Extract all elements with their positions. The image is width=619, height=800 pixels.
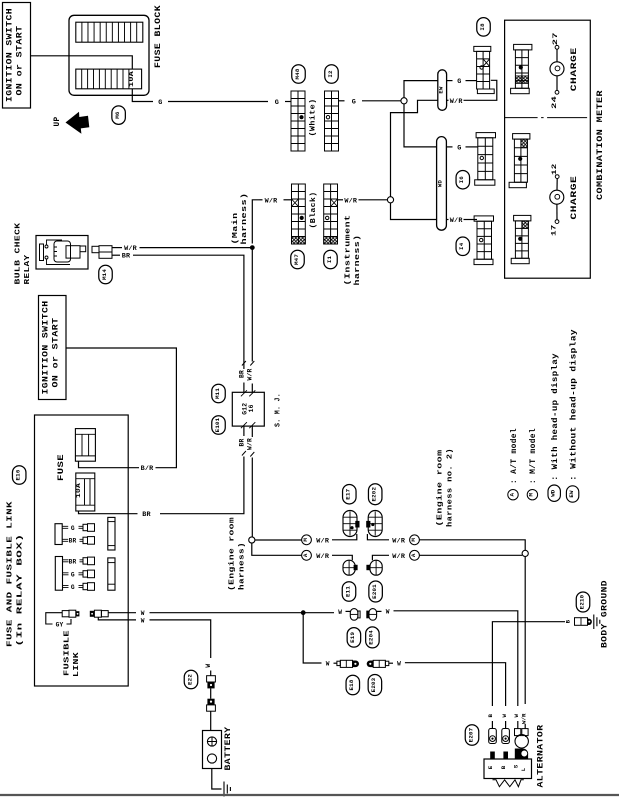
wire BR SMJ to fuse box <box>160 457 244 514</box>
ignition switch 1 box <box>3 3 31 109</box>
svg-text:(Black): (Black) <box>310 192 318 229</box>
wire W row junction dot <box>301 610 306 615</box>
svg-text:M6: M6 <box>114 111 121 119</box>
wire W/R M branch <box>255 539 302 541</box>
charge lamp 2 bulb <box>556 179 558 191</box>
svg-text:BR: BR <box>239 439 246 447</box>
connector M6 <box>112 106 126 125</box>
wire W from E204 <box>377 610 382 612</box>
svg-text:W: W <box>397 660 401 667</box>
wire W/R A to merge node <box>419 554 522 556</box>
alternator B terminal <box>491 721 493 729</box>
wire B/R ignition switch 2 <box>66 348 176 468</box>
relay internal contacts <box>45 245 48 248</box>
wire W/R WD bar to I4 <box>446 219 448 221</box>
svg-text:S: S <box>512 764 519 768</box>
svg-text:BR: BR <box>69 558 77 565</box>
wire W/R node up to EW bar <box>391 100 438 196</box>
svg-text:FUSE BLOCK: FUSE BLOCK <box>154 5 163 68</box>
fuse block lower fuse strip <box>76 69 142 89</box>
svg-text:E18: E18 <box>348 679 355 690</box>
svg-text:W: W <box>501 714 508 718</box>
svg-text:B: B <box>500 765 507 769</box>
wire W from E203 <box>389 662 393 664</box>
svg-text:WD: WD <box>437 180 444 188</box>
svg-text:10A: 10A <box>128 71 135 87</box>
connector M14 pins <box>92 246 99 252</box>
battery side connector <box>207 699 214 705</box>
svg-text:G: G <box>71 571 75 578</box>
connector M11 <box>212 384 226 403</box>
wire W upper from fusible link <box>108 612 136 614</box>
merge node open circle <box>522 550 528 556</box>
legend A/T symbol <box>508 490 518 500</box>
battery ground wire <box>212 769 222 790</box>
svg-text:LINK: LINK <box>73 652 81 677</box>
svg-text:M: M <box>528 493 535 497</box>
svg-text:M47: M47 <box>293 254 300 265</box>
legend EW symbol <box>566 486 578 502</box>
wire W/R M47 to left <box>284 199 292 201</box>
svg-text:27: 27 <box>552 32 559 45</box>
svg-text:ON or START: ON or START <box>52 318 61 388</box>
svg-text:E22: E22 <box>186 674 193 685</box>
svg-text:W: W <box>338 609 342 616</box>
svg-text:M48: M48 <box>294 68 301 79</box>
svg-text:E202: E202 <box>371 487 378 502</box>
battery <box>203 731 222 769</box>
svg-text:W: W <box>386 609 390 616</box>
legend WD symbol <box>548 485 560 501</box>
fusible link connector left <box>62 611 69 617</box>
svg-text:E210: E210 <box>578 594 585 609</box>
svg-text:M: M <box>302 538 309 542</box>
svg-text:CHARGE: CHARGE <box>570 176 579 220</box>
connector E16 <box>12 466 26 485</box>
svg-text:W: W <box>141 610 145 617</box>
svg-text:E203: E203 <box>370 677 377 692</box>
wire W/R M47 down to relay junction <box>252 200 259 244</box>
wire W to alternator <box>394 611 518 706</box>
connector E17 <box>343 511 357 537</box>
wire W/R from E201 <box>372 555 389 560</box>
fuse lower 10A in relay box <box>76 473 95 511</box>
svg-text:: A/T model: : A/T model <box>511 428 519 484</box>
svg-text:harness): harness) <box>354 235 362 286</box>
svg-text:G: G <box>71 525 75 532</box>
wire break ticks below SMJ labels <box>242 451 254 457</box>
battery ground symbol <box>224 782 230 797</box>
svg-text:W: W <box>141 618 145 625</box>
connector M47 grid <box>292 184 306 244</box>
svg-text:G: G <box>275 99 280 107</box>
svg-text:I2: I2 <box>327 70 334 78</box>
wire W lower from fusible link <box>98 617 136 620</box>
svg-text:CHARGE: CHARGE <box>570 47 579 91</box>
relay output connector <box>66 246 80 258</box>
wire W/R from E202 <box>367 534 389 540</box>
svg-text:BULB CHECK: BULB CHECK <box>15 222 23 284</box>
svg-text:W/R: W/R <box>247 438 254 450</box>
connector I2 grid <box>325 91 339 151</box>
comb 1 BR link pill <box>80 539 84 541</box>
fuse and fusible link box <box>35 415 129 686</box>
svg-text:W/R: W/R <box>316 537 330 545</box>
alternator sawtooth <box>493 780 524 787</box>
ignition switch 2 box <box>39 296 67 400</box>
relay internal wiring <box>47 240 63 245</box>
wire W/R node down to WD bar <box>391 203 437 220</box>
svg-text:FUSE AND FUSIBLE LINK: FUSE AND FUSIBLE LINK <box>7 501 15 647</box>
svg-text:FUSE: FUSE <box>58 454 66 481</box>
svg-text:W/R: W/R <box>450 217 464 225</box>
legend M/T symbol <box>527 490 537 500</box>
svg-text:ALTERNATOR: ALTERNATOR <box>537 725 546 788</box>
svg-text:BR: BR <box>122 253 131 261</box>
svg-text:12: 12 <box>551 164 558 176</box>
wire G fuse block to M48 <box>132 89 153 102</box>
svg-text:BODY GROUND: BODY GROUND <box>601 580 610 648</box>
wire B/R from fuse <box>79 461 81 468</box>
svg-text:17: 17 <box>551 225 558 237</box>
charge lamp 1 bulb <box>556 49 558 62</box>
meter connector middle <box>513 134 530 140</box>
connector E201 <box>370 560 382 575</box>
svg-text:COMBINATION METER: COMBINATION METER <box>596 90 605 200</box>
wire W drop to E18 row <box>303 613 321 663</box>
cartridge fusible link B <box>108 558 115 590</box>
WD flow bar <box>437 137 447 231</box>
svg-text:G: G <box>457 144 462 152</box>
charge lamp 1 terminal 24 <box>555 90 559 94</box>
svg-text:harness): harness) <box>239 542 247 590</box>
connector E19 <box>350 609 358 621</box>
connector I8 <box>474 46 491 51</box>
connector E202 <box>368 511 382 537</box>
charge lamp 2 terminal 12 <box>555 175 559 179</box>
svg-text:W/R: W/R <box>344 197 358 205</box>
svg-text:E204: E204 <box>368 630 375 645</box>
wire W/R M to merge <box>419 540 525 551</box>
wire W/R merge to alternator <box>524 557 526 705</box>
UP direction arrow <box>66 112 90 134</box>
fusible link connector right <box>90 611 95 617</box>
wire W/R SMJ to engine room circle <box>251 458 253 537</box>
svg-text:W: W <box>513 714 520 718</box>
wire ignition switch 1 to fuse 10A <box>31 56 133 69</box>
fuse block upper fuse strip <box>76 22 143 42</box>
svg-text:A: A <box>410 553 417 557</box>
svg-text:B/R: B/R <box>141 465 155 473</box>
svg-text:FUSIBLE: FUSIBLE <box>64 630 72 676</box>
node junction open circle <box>401 98 407 104</box>
charge lamp 1 terminal 27 <box>555 45 559 49</box>
svg-text:: M/T model: : M/T model <box>530 428 538 484</box>
svg-text:B: B <box>487 714 494 718</box>
connector E210 <box>575 618 588 626</box>
svg-text:G: G <box>158 99 163 107</box>
wire W/R EW bar to I8 bottom <box>447 99 449 101</box>
fuse block outline <box>69 15 149 95</box>
comb 1 G link pill <box>79 526 83 528</box>
wire W/R to E11 <box>332 555 352 560</box>
connector I4 <box>474 216 493 221</box>
svg-text:I1: I1 <box>326 256 333 264</box>
svg-text:GY: GY <box>56 622 64 629</box>
svg-text:W/R: W/R <box>392 553 406 561</box>
svg-text:M11: M11 <box>214 388 221 399</box>
svg-text:(Engine room: (Engine room <box>229 516 237 591</box>
bulb check relay box <box>36 236 88 270</box>
svg-text:M: M <box>410 538 417 542</box>
wire W/R to E17 <box>332 534 357 540</box>
fusible link loop GY <box>46 613 62 624</box>
connector M14 <box>99 265 113 284</box>
svg-text:E17: E17 <box>345 488 352 499</box>
alternator body <box>484 759 532 779</box>
svg-text:BR: BR <box>69 538 77 545</box>
svg-text:E201: E201 <box>371 584 378 599</box>
svg-text:L: L <box>520 767 527 771</box>
svg-text:G: G <box>71 584 75 591</box>
combination meter box <box>505 20 591 278</box>
svg-text:harness): harness) <box>241 193 249 245</box>
body ground symbol <box>594 615 600 630</box>
svg-text:BR: BR <box>142 511 151 519</box>
svg-text:W/R: W/R <box>247 369 254 381</box>
svg-text:16: 16 <box>248 404 255 412</box>
svg-text:E19: E19 <box>349 632 356 643</box>
svg-text:EW: EW <box>568 490 575 498</box>
fusible link comb 1 <box>55 524 62 545</box>
svg-text:IGNITION SWITCH: IGNITION SWITCH <box>6 8 15 102</box>
svg-text:G: G <box>457 78 462 86</box>
svg-text:: Without head-up display: : Without head-up display <box>570 329 578 481</box>
wire W/R A branch <box>252 543 302 555</box>
wire W/R relay to junction <box>112 247 122 249</box>
connector E22 <box>184 670 198 689</box>
svg-text:I6: I6 <box>458 176 465 184</box>
svg-text:(Main: (Main <box>232 213 240 245</box>
svg-text:A: A <box>302 553 309 557</box>
svg-text:BATTERY: BATTERY <box>224 727 233 771</box>
wire B alternator to body ground <box>492 622 565 706</box>
node open circle W/R split <box>249 537 255 543</box>
connector M48 grid <box>291 91 305 151</box>
wire W/R junction to SMJ <box>251 248 253 362</box>
svg-text:(In RELAY BOX): (In RELAY BOX) <box>17 534 25 647</box>
fusible link comb 2 <box>55 557 62 591</box>
connector E207 <box>465 725 479 746</box>
wire W/R I1 to junction node <box>338 199 344 201</box>
comb 2 BR link pill <box>80 560 84 562</box>
svg-text:E101: E101 <box>214 417 221 432</box>
junction dot W/R <box>250 245 255 250</box>
connector E203 <box>367 661 374 668</box>
svg-text:I4: I4 <box>458 242 465 250</box>
svg-text:W: W <box>326 660 330 667</box>
svg-text:harness no. 2): harness no. 2) <box>447 448 455 527</box>
svg-text:W/R: W/R <box>392 537 406 545</box>
wire E22 to battery <box>210 688 212 698</box>
wire G EW bar to I8 <box>447 80 453 82</box>
alternator W terminal <box>505 721 507 729</box>
svg-text:: With head-up display: : With head-up display <box>552 353 560 481</box>
wire BR from fuse 10A <box>79 511 81 514</box>
connector E11 <box>343 560 355 575</box>
svg-text:W/R: W/R <box>316 553 330 561</box>
svg-text:IGNITION SWITCH: IGNITION SWITCH <box>42 301 51 395</box>
svg-text:W: W <box>205 664 212 668</box>
M model circle right <box>410 535 420 545</box>
node open circle W/R <box>387 197 393 203</box>
wire W to alternator <box>405 663 506 706</box>
svg-text:10A: 10A <box>75 483 82 498</box>
wire BR relay <box>112 254 120 256</box>
svg-text:B: B <box>564 619 571 623</box>
svg-text:S. M. J.: S. M. J. <box>275 393 283 427</box>
alternator pins <box>490 752 495 760</box>
M model circle <box>302 535 312 545</box>
wire G WD bar to I6 <box>446 146 452 148</box>
svg-text:E207: E207 <box>467 727 474 742</box>
svg-text:WD: WD <box>550 489 557 497</box>
svg-text:(White): (White) <box>310 99 318 137</box>
svg-text:24: 24 <box>551 96 558 109</box>
svg-text:E16: E16 <box>15 469 22 480</box>
wire G junction to EW bar <box>404 81 438 98</box>
A model circle right <box>410 550 420 560</box>
EW flow bar <box>438 70 447 111</box>
connector E204 <box>369 609 377 621</box>
svg-text:RELAY: RELAY <box>24 254 32 284</box>
connector E18 <box>337 661 340 665</box>
fuse upper in relay box <box>75 429 95 462</box>
connector I6 <box>476 133 495 138</box>
relay coil <box>54 241 71 262</box>
wire G junction down to WD bar <box>404 104 437 147</box>
svg-text:M14: M14 <box>101 269 108 280</box>
svg-text:E11: E11 <box>344 586 351 597</box>
connector I1 grid <box>324 184 338 244</box>
connector E101 <box>212 416 226 435</box>
svg-text:E: E <box>487 765 494 769</box>
meter connector upper <box>514 44 532 50</box>
wire BR below SMJ <box>243 426 245 436</box>
svg-text:W/R: W/R <box>520 713 527 724</box>
svg-text:W/R: W/R <box>450 98 464 106</box>
bottom frame line <box>0 794 619 796</box>
svg-text:W/R: W/R <box>265 197 279 205</box>
alternator S/L terminal <box>517 721 519 729</box>
svg-text:I8: I8 <box>479 23 486 31</box>
charge lamp 2 terminal 17 <box>555 220 559 224</box>
meter connector lower <box>514 215 531 221</box>
svg-text:ON or START: ON or START <box>16 26 25 96</box>
relay internal contact bar <box>40 244 44 261</box>
svg-text:A: A <box>508 493 515 497</box>
SMJ entry ticks <box>241 390 255 428</box>
svg-text:G: G <box>352 98 357 106</box>
svg-text:EW: EW <box>437 86 444 94</box>
svg-text:(Instrument: (Instrument <box>345 215 353 286</box>
svg-text:BR: BR <box>239 370 246 378</box>
meter section divider dash-dot line <box>505 117 591 119</box>
cartridge fusible link A <box>108 517 115 550</box>
svg-text:(Engine room: (Engine room <box>437 449 445 527</box>
svg-text:UP: UP <box>54 117 62 127</box>
S.M.J. box <box>232 392 264 426</box>
wire break ticks above SMJ labels <box>242 361 254 366</box>
wire G I2 to junction <box>339 100 345 102</box>
A model circle <box>302 550 312 560</box>
